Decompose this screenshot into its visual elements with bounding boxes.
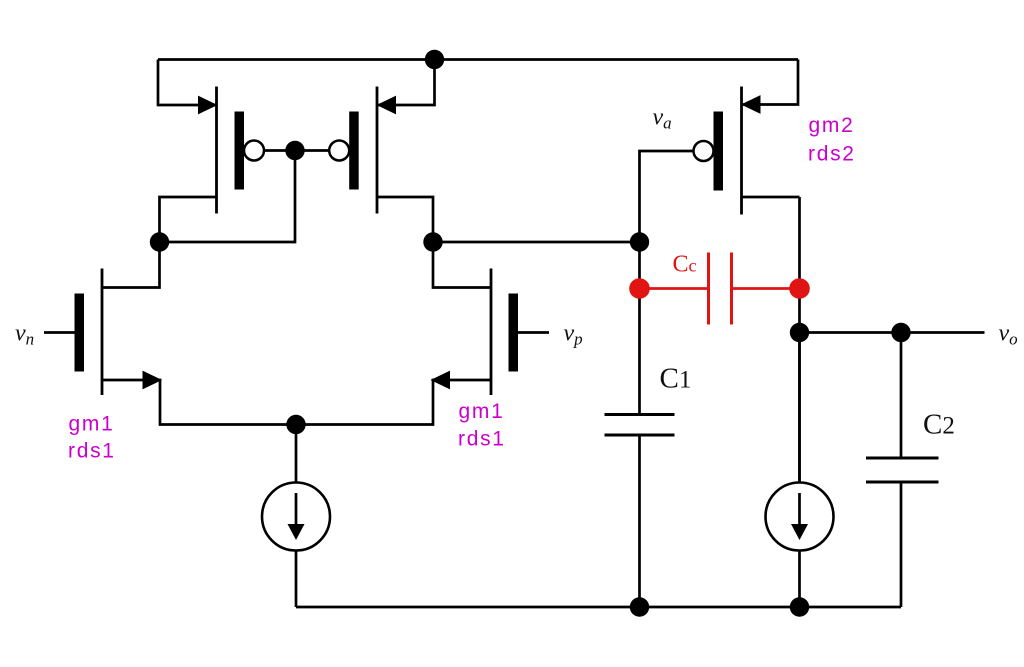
svg-text:rds1: rds1 bbox=[68, 440, 116, 463]
svg-text:gm1: gm1 bbox=[459, 400, 505, 423]
node: left drain junction bbox=[150, 232, 169, 251]
svg-text:rds1: rds1 bbox=[458, 428, 506, 451]
svg-text:C1: C1 bbox=[660, 363, 692, 395]
wire: node va to M5 gate bbox=[640, 151, 694, 242]
wire: mirror gate bus bbox=[264, 149, 329, 152]
svg-text:C2: C2 bbox=[923, 409, 955, 441]
wire: Cc tap down to C1 bbox=[638, 289, 641, 415]
node A (va) bbox=[630, 232, 649, 251]
svg-text:vn: vn bbox=[15, 321, 34, 349]
wire: mirror gate-to-drain feedback bbox=[160, 151, 296, 243]
capacitor C1 bbox=[605, 415, 675, 436]
transistor M3 (PMOS current mirror, left) bbox=[158, 60, 264, 243]
capacitor Cc (compensation, red) bbox=[640, 253, 800, 325]
current source I1 (tail) bbox=[262, 425, 330, 608]
node: C1 ground junction bbox=[630, 597, 649, 616]
current source I2 (output stage load) bbox=[766, 333, 834, 608]
svg-text:gm1: gm1 bbox=[69, 413, 115, 436]
wire: output to vo bbox=[800, 331, 985, 334]
wire: C1 to ground rail bbox=[638, 435, 641, 607]
node: Cc right terminal (red) bbox=[789, 278, 810, 299]
capacitor C2 bbox=[866, 458, 939, 482]
wire: top supply rail bbox=[158, 58, 798, 61]
node: output junction bbox=[790, 323, 809, 342]
wire: C2 bottom lead bbox=[900, 482, 903, 607]
svg-text:rds2: rds2 bbox=[808, 142, 856, 165]
svg-text:va: va bbox=[653, 105, 672, 133]
wire: diff output to node va bbox=[433, 241, 640, 244]
svg-text:vo: vo bbox=[999, 321, 1018, 349]
node: tail junction bbox=[286, 415, 305, 434]
node: mirror gate junction bbox=[285, 141, 304, 160]
node: top rail junction bbox=[425, 50, 444, 69]
node: diff-pair output junction bbox=[423, 232, 442, 251]
wire: va down to Cc tap bbox=[638, 242, 641, 289]
transistor M5 (PMOS second stage, gm2) bbox=[694, 60, 800, 215]
node: C2 tap junction bbox=[891, 323, 910, 342]
transistor M1 (NMOS input, vn) bbox=[44, 242, 296, 425]
svg-text:Cc: Cc bbox=[673, 252, 697, 278]
node: I2 ground junction bbox=[790, 597, 809, 616]
svg-text:gm2: gm2 bbox=[809, 114, 855, 137]
wire: bottom ground rail bbox=[296, 606, 901, 609]
wire: M5 drain / output column bbox=[798, 197, 801, 483]
transistor M4 (PMOS current mirror, right) bbox=[329, 60, 434, 243]
wire: C2 top lead bbox=[900, 333, 903, 459]
node: Cc left terminal (red) bbox=[629, 278, 650, 299]
svg-text:vp: vp bbox=[564, 321, 583, 349]
transistor M2 (NMOS input, vp) bbox=[296, 242, 549, 425]
